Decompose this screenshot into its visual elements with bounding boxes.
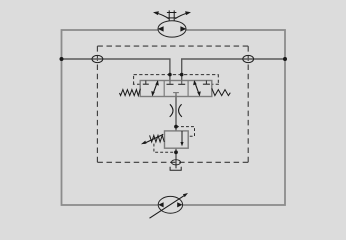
motor M1: bidirectional hydraulic motor circle	[158, 21, 187, 37]
arrow: shaft rotation right	[175, 11, 191, 18]
valve V1 centre box: blocked ports	[167, 81, 186, 97]
wire: left branch from left loop line to valve port A	[62, 59, 170, 81]
arrow: shaft rotation left	[153, 11, 169, 18]
spring: valve left return spring	[120, 89, 141, 96]
junction: right loop tap	[283, 57, 287, 61]
junction: pilot tap A	[168, 73, 172, 77]
arrow: relief valve adjustment arrow	[141, 134, 163, 144]
wire: valve tank port down through orifice to relief valve	[175, 97, 177, 132]
arrow: pump variable displacement diagonal	[150, 193, 189, 218]
spring: valve right return spring	[212, 88, 231, 95]
spring: relief valve adjustable spring	[150, 135, 165, 142]
port: bottom manifold tank port	[171, 160, 180, 165]
pilot line: relief valve remote pilot from inlet	[176, 127, 195, 137]
valve V1 left box: blocked port T and flow arrow	[143, 80, 159, 96]
wire: right branch from right loop line to valve port B	[182, 59, 285, 81]
valve V1: 3-position directional valve body	[140, 81, 212, 97]
pilot line: dashed line above valve with taps	[133, 74, 219, 84]
relief valve RV1: body	[165, 131, 189, 148]
valve V1 right box: flow arrow and blocked port T	[193, 80, 210, 96]
pilot line: relief valve spring chamber drain	[154, 144, 176, 153]
junction: left loop tap	[60, 57, 64, 61]
tank: reservoir symbol	[170, 167, 181, 171]
pump P1: variable displacement pump circle	[158, 196, 182, 213]
port: right manifold test port	[243, 55, 254, 62]
junction: relief drain tap	[174, 150, 178, 154]
junction: relief pilot tap	[174, 125, 178, 129]
enclosure: dashed manifold boundary	[97, 46, 248, 162]
relief valve RV1: internal flow arrow	[180, 131, 183, 146]
motor M1: output shaft	[167, 10, 177, 20]
port: left manifold test port	[92, 55, 103, 62]
wire: relief valve outlet down to tank	[175, 148, 177, 168]
junction: pilot tap B	[180, 73, 184, 77]
orifice: fixed restriction in tank line	[170, 104, 182, 117]
wire: main circuit loop rectangle (pump to motor lines)	[62, 30, 286, 205]
